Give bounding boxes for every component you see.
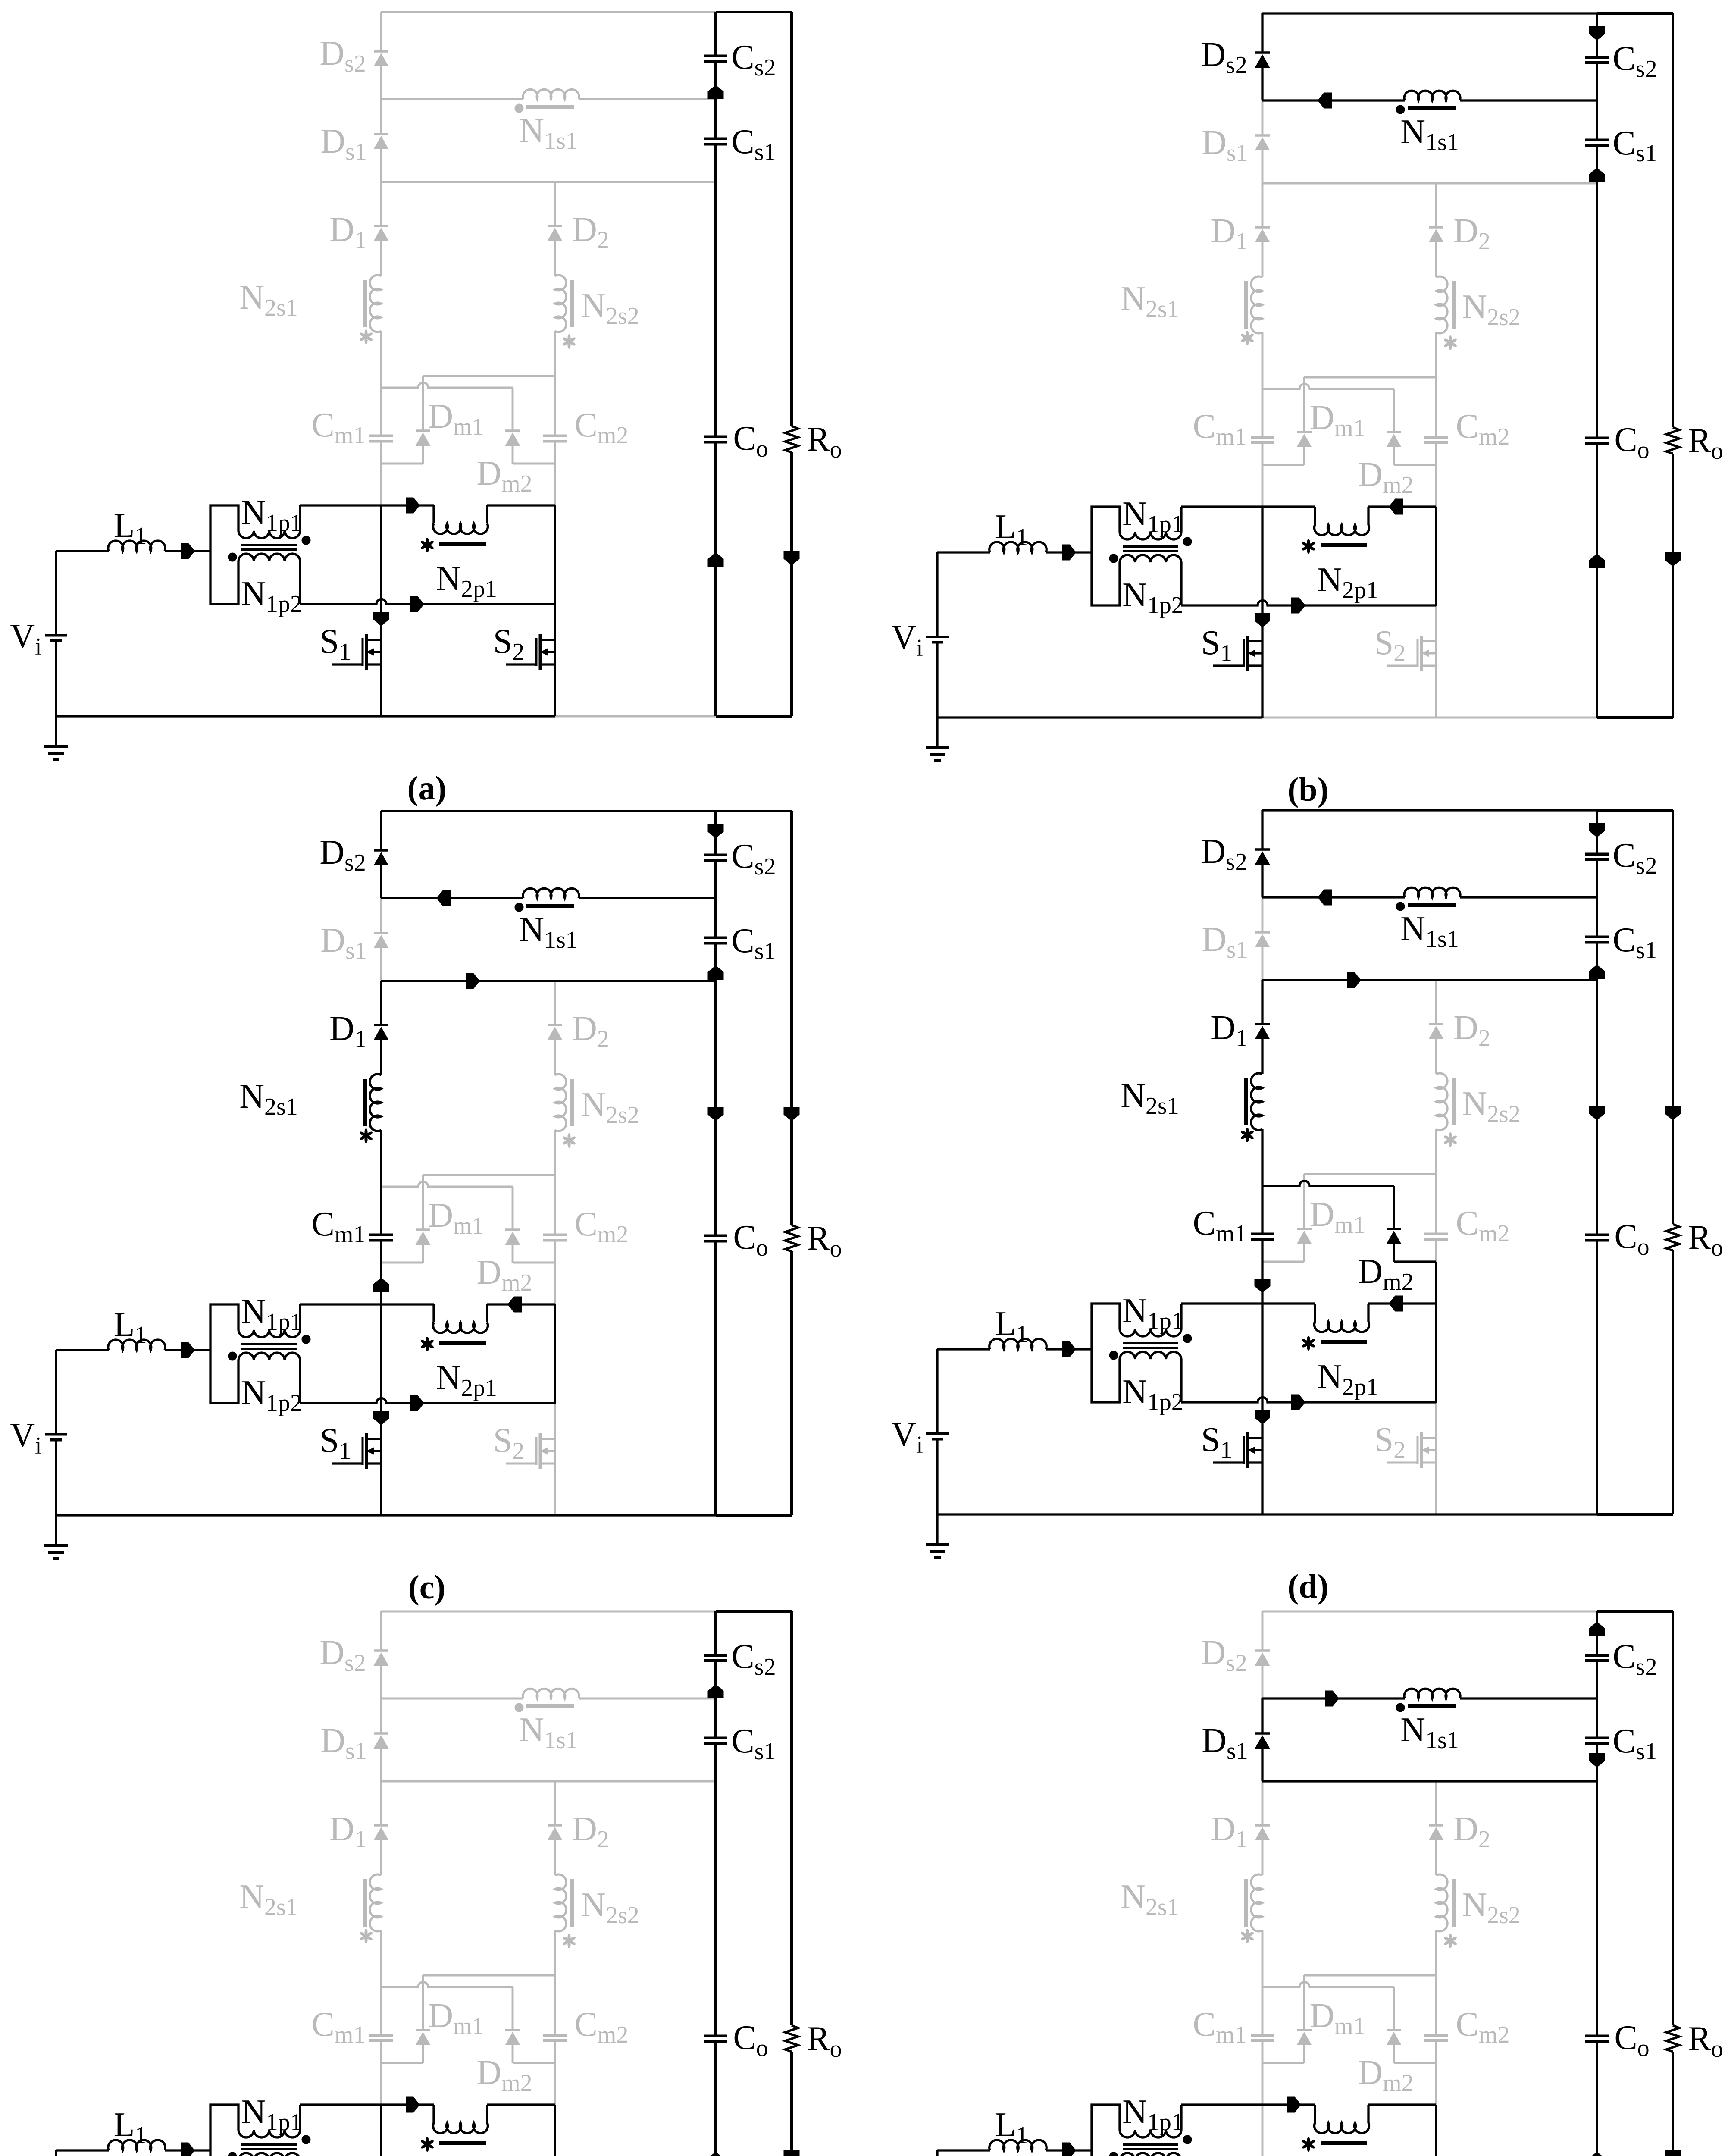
svg-text:(b): (b) (1287, 771, 1328, 808)
svg-text:(a): (a) (407, 769, 447, 807)
svg-text:(c): (c) (408, 1568, 446, 1606)
svg-text:(d): (d) (1287, 1567, 1328, 1605)
